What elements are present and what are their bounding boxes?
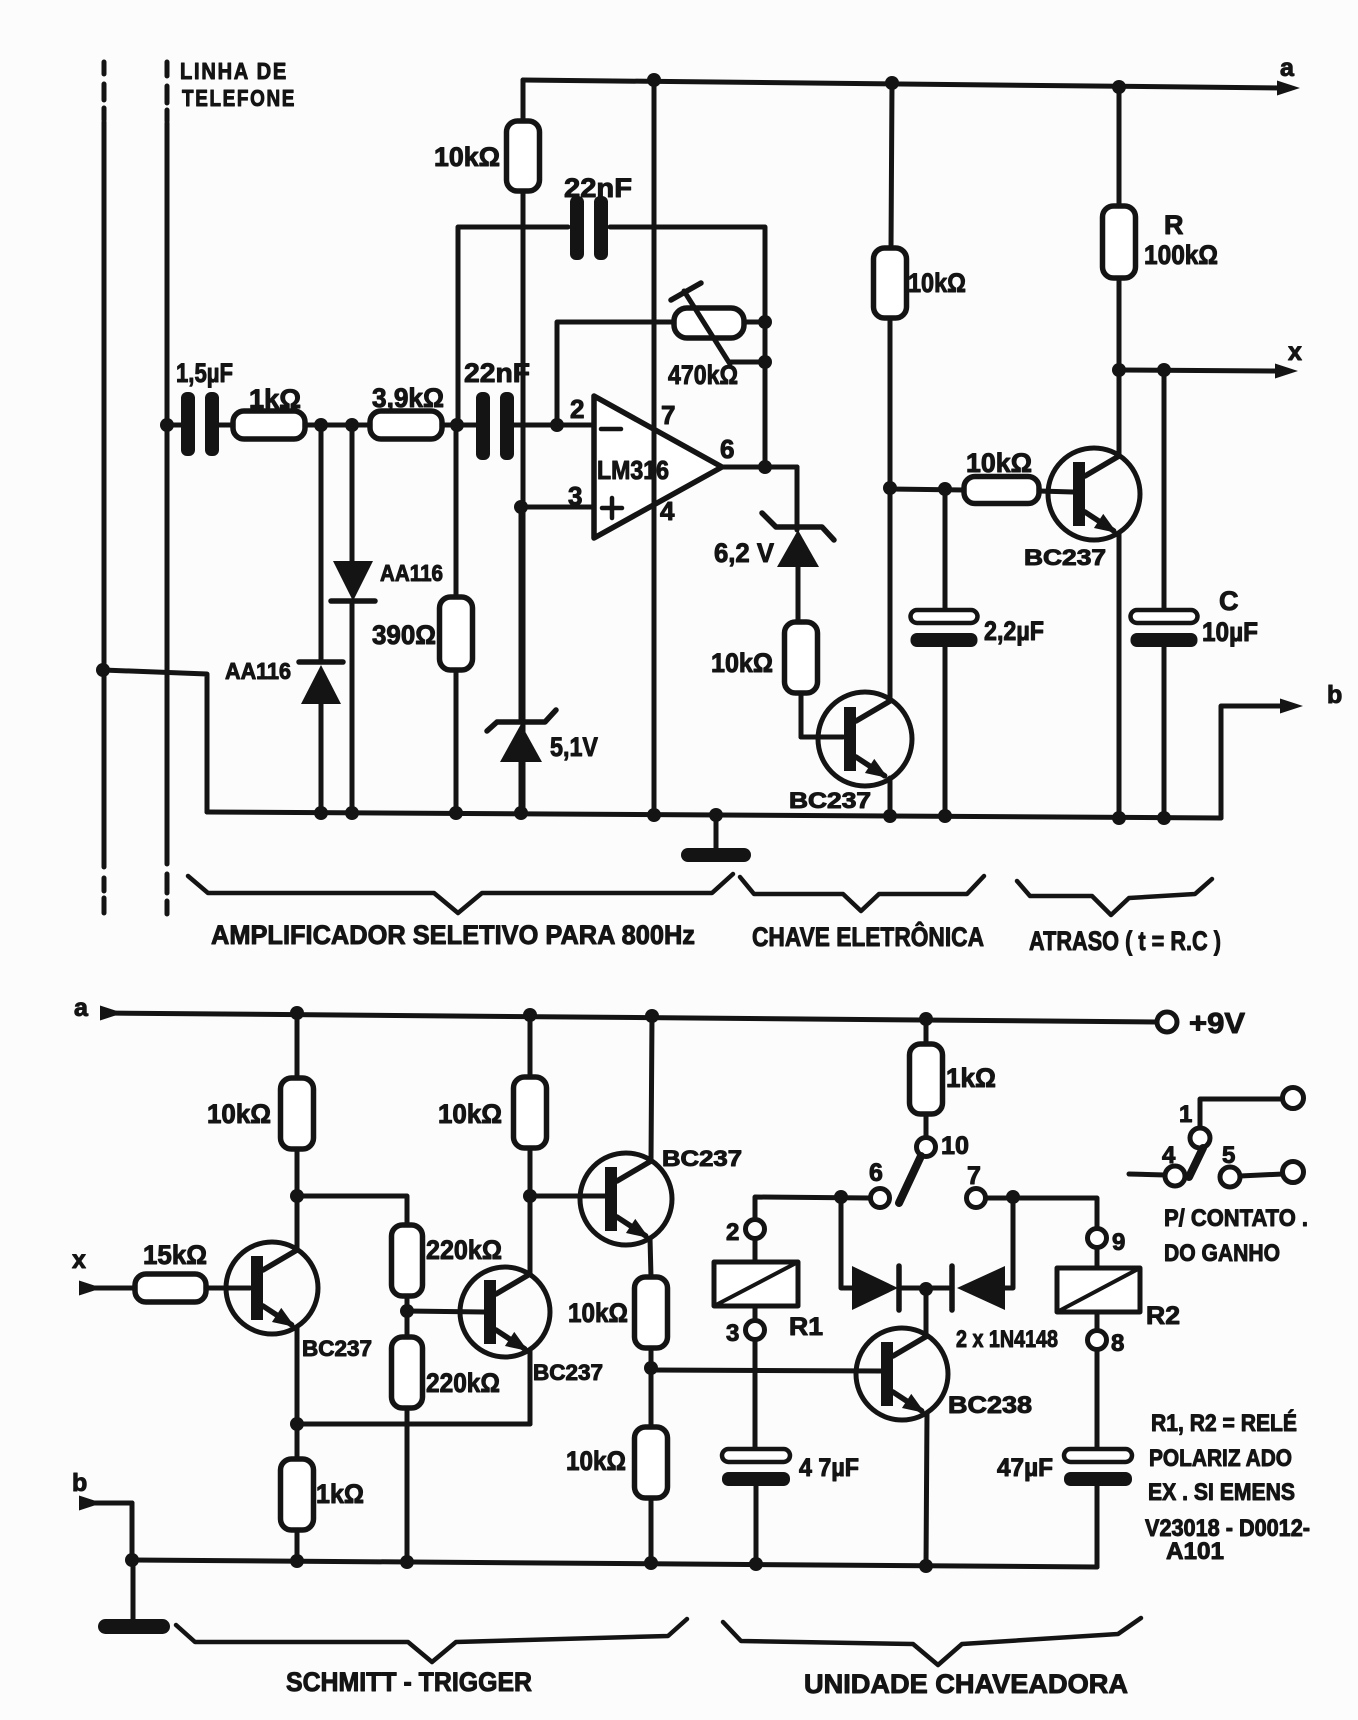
node rail d9 xyxy=(1157,811,1171,825)
relay R1 xyxy=(746,1220,765,1239)
svg-text:C: C xyxy=(1219,586,1239,616)
node b ground xyxy=(125,1553,139,1567)
svg-text:6: 6 xyxy=(869,1159,883,1187)
svg-text:47µF: 47µF xyxy=(997,1454,1053,1482)
svg-text:BC237: BC237 xyxy=(533,1360,603,1385)
switch lever main xyxy=(899,1156,921,1203)
svg-text:3: 3 xyxy=(726,1320,739,1347)
node A (diode tap 1) xyxy=(314,418,328,432)
node top rail 1 xyxy=(647,73,661,87)
wire divider to q4 base xyxy=(407,1311,484,1312)
node rail d4 xyxy=(514,806,528,820)
svg-text:10kΩ: 10kΩ xyxy=(566,1446,626,1476)
svg-text:BC237: BC237 xyxy=(302,1336,372,1361)
wire 3,9k to 22nF xyxy=(442,423,476,428)
node lr2 xyxy=(400,1555,414,1569)
op-amp U1 LM316 xyxy=(594,396,722,538)
capacitor 1,5uF xyxy=(181,392,195,456)
node rail ground xyxy=(709,808,723,822)
node output junction xyxy=(758,460,772,474)
svg-text:8: 8 xyxy=(1111,1330,1124,1357)
svg-text:4: 4 xyxy=(660,496,675,526)
node pin3 junction xyxy=(514,500,528,514)
svg-text:POLARIZ ADO: POLARIZ ADO xyxy=(1149,1445,1292,1472)
svg-text:2: 2 xyxy=(726,1219,739,1246)
zener 6,2V xyxy=(762,513,834,540)
transistor Q5 BC237 driver xyxy=(580,1153,672,1245)
resistor 390R xyxy=(454,425,459,597)
gain switch lever xyxy=(1189,1148,1203,1177)
node top rail 3 xyxy=(1112,80,1126,94)
svg-text:10kΩ: 10kΩ xyxy=(568,1298,628,1328)
svg-text:x: x xyxy=(72,1246,86,1274)
svg-text:6: 6 xyxy=(720,434,734,464)
svg-text:9: 9 xyxy=(1112,1229,1125,1256)
node top rail 2 xyxy=(885,76,899,90)
wire bottom rail upper section xyxy=(103,670,207,812)
resistor 220k upper xyxy=(392,1225,423,1296)
ground upper xyxy=(714,815,719,849)
node pot wiper xyxy=(758,355,772,369)
svg-text:AMPLIFICADOR SELETIVO PARA: AMPLIFICADOR SELETIVO PARA 800Hz xyxy=(211,920,695,950)
resistor 15k xyxy=(135,1274,206,1302)
wire 1k to 3,9k xyxy=(305,423,370,428)
svg-text:BC238: BC238 xyxy=(948,1392,1032,1419)
resistor 3,9k xyxy=(370,411,442,439)
transistor Q3 BC237 schmitt input xyxy=(226,1242,318,1334)
node phone line 2 input junction xyxy=(160,418,174,432)
node a4 xyxy=(919,1012,933,1026)
svg-text:1kΩ: 1kΩ xyxy=(946,1063,996,1093)
svg-text:3,9kΩ: 3,9kΩ xyxy=(372,383,444,413)
svg-text:EX . SI EMENS: EX . SI EMENS xyxy=(1148,1479,1295,1506)
svg-text:2: 2 xyxy=(570,394,584,424)
resistor 10k top-left xyxy=(521,80,526,121)
wire op-amp output xyxy=(722,465,797,470)
capacitor C 10uF xyxy=(1162,370,1167,610)
brace unidade chaveadora xyxy=(723,1618,1141,1665)
svg-text:220kΩ: 220kΩ xyxy=(426,1368,500,1398)
node lr3 xyxy=(644,1556,658,1570)
node q1 collector xyxy=(290,1189,304,1203)
svg-text:AA116: AA116 xyxy=(225,658,291,684)
wire base feed xyxy=(890,489,964,490)
svg-text:BC237: BC237 xyxy=(789,788,871,813)
svg-text:R1, R2 = RELÉ: R1, R2 = RELÉ xyxy=(1151,1409,1297,1437)
node emitters join xyxy=(290,1417,304,1431)
node diode tap right xyxy=(1006,1190,1020,1204)
transistor Q1 BC237 switch-low xyxy=(818,692,912,786)
svg-text:A101: A101 xyxy=(1166,1538,1224,1565)
svg-text:10kΩ: 10kΩ xyxy=(438,1099,502,1129)
brace chave section xyxy=(740,876,984,911)
node driver junction xyxy=(644,1361,658,1375)
wire q4 collector to q5 base xyxy=(530,1194,605,1199)
ground lower xyxy=(131,1560,136,1620)
wire telephone line 1 (dashed/solid) xyxy=(102,62,107,120)
svg-text:7: 7 xyxy=(967,1162,981,1190)
svg-text:10: 10 xyxy=(941,1132,969,1160)
svg-text:R: R xyxy=(1164,210,1184,240)
node pot terminal xyxy=(758,315,772,329)
node pin2 xyxy=(550,418,564,432)
svg-text:P/ CONTATO .: P/ CONTATO . xyxy=(1164,1205,1308,1232)
wire driver to BC238 base xyxy=(651,1370,881,1371)
svg-text:1kΩ: 1kΩ xyxy=(249,384,301,414)
node x line 1 xyxy=(1112,363,1126,377)
node q4 collector xyxy=(523,1189,537,1203)
node rail d1 xyxy=(314,806,328,820)
svg-text:b: b xyxy=(1327,681,1342,709)
node a1 xyxy=(290,1006,304,1020)
svg-text:LM316: LM316 xyxy=(597,455,669,485)
svg-text:DO GANHO: DO GANHO xyxy=(1164,1240,1280,1267)
node divider mid xyxy=(400,1304,414,1318)
svg-text:UNIDADE CHAVEADORA: UNIDADE CHAVEADORA xyxy=(804,1669,1128,1699)
svg-text:2,2µF: 2,2µF xyxy=(984,616,1044,646)
transistor Q6 BC238 xyxy=(856,1328,948,1420)
svg-text:b: b xyxy=(72,1469,87,1497)
node a3 xyxy=(645,1009,659,1023)
contact 7 xyxy=(967,1189,986,1208)
node collector ladder xyxy=(883,481,897,495)
node rail d8 xyxy=(1112,811,1126,825)
wire between diodes xyxy=(899,1286,952,1291)
node a2 xyxy=(523,1008,537,1022)
contact 10 xyxy=(917,1138,936,1157)
svg-text:2 x 1N4148: 2 x 1N4148 xyxy=(956,1326,1058,1353)
svg-text:1: 1 xyxy=(1179,1101,1192,1128)
node cap 2,2uF tap xyxy=(938,482,952,496)
svg-text:22nF: 22nF xyxy=(464,358,530,388)
potentiometer 470k xyxy=(557,322,674,425)
brace amplifier section xyxy=(188,874,733,913)
node lr4 xyxy=(749,1557,763,1571)
svg-text:7: 7 xyxy=(661,400,675,430)
node C (feedback tap) xyxy=(450,418,464,432)
node rail d5 xyxy=(647,808,661,822)
node lr1 xyxy=(290,1554,304,1568)
svg-text:BC237: BC237 xyxy=(662,1146,742,1171)
svg-text:BC237: BC237 xyxy=(1024,545,1106,570)
wire telephone line 2 (dashed/solid) xyxy=(165,62,170,121)
wire x output xyxy=(1119,370,1280,371)
node B (diode tap 2) xyxy=(345,418,359,432)
diode AA116 D1 (points down) xyxy=(350,425,355,561)
node rail d7 xyxy=(938,809,952,823)
node rail d2 xyxy=(345,806,359,820)
svg-text:LINHA DE: LINHA DE xyxy=(180,58,288,84)
svg-text:SCHMITT - TRIGGER: SCHMITT - TRIGGER xyxy=(286,1667,532,1697)
wire contact7 to relay R2 xyxy=(986,1198,1097,1228)
svg-text:100kΩ: 100kΩ xyxy=(1144,240,1218,270)
brace atraso section xyxy=(1017,879,1212,915)
capacitor 47uF right xyxy=(1064,1449,1132,1462)
resistor 10k schmitt left xyxy=(295,1013,300,1078)
svg-text:390Ω: 390Ω xyxy=(372,620,436,650)
svg-text:AA116: AA116 xyxy=(380,560,443,586)
resistor 10k driver upper xyxy=(635,1277,668,1348)
wire diode left leg xyxy=(841,1197,852,1288)
svg-text:TELEFONE: TELEFONE xyxy=(182,85,296,111)
resistor 1k relay feed xyxy=(924,1019,929,1044)
svg-text:10kΩ: 10kΩ xyxy=(434,142,500,172)
wire diode right leg xyxy=(1005,1197,1013,1288)
resistor 10k collector ladder xyxy=(891,83,892,248)
svg-text:1kΩ: 1kΩ xyxy=(316,1479,364,1509)
wire contact6 to relay R1 xyxy=(755,1197,870,1220)
svg-text:+9V: +9V xyxy=(1189,1008,1246,1040)
wire top rail a xyxy=(523,80,1282,88)
svg-text:R2: R2 xyxy=(1146,1302,1180,1330)
wire pin3 xyxy=(521,505,594,510)
svg-text:15kΩ: 15kΩ xyxy=(143,1240,207,1270)
svg-text:5,1V: 5,1V xyxy=(550,732,598,762)
svg-text:10kΩ: 10kΩ xyxy=(966,448,1032,478)
diode D3 1N4148 xyxy=(852,1266,898,1310)
diode D4 1N4148 xyxy=(957,1266,1005,1310)
svg-text:6,2 V: 6,2 V xyxy=(714,538,774,568)
capacitor 22nF feedback xyxy=(570,196,584,260)
resistor 10k base horizontal xyxy=(964,477,1039,504)
capacitor 47uF left xyxy=(722,1449,790,1462)
brace schmitt trigger xyxy=(176,1619,687,1662)
svg-text:CHAVE ELETRÔNICA: CHAVE ELETRÔNICA xyxy=(752,921,984,952)
svg-text:1,5µF: 1,5µF xyxy=(176,358,233,388)
node rail d3 xyxy=(449,806,463,820)
svg-text:470kΩ: 470kΩ xyxy=(668,360,738,390)
wire b output xyxy=(1221,706,1285,818)
resistor R 100k xyxy=(1117,88,1122,206)
node diode tap left xyxy=(834,1190,848,1204)
svg-text:10kΩ: 10kΩ xyxy=(711,648,773,678)
wire pin4/pin7 supply vertical xyxy=(652,80,657,815)
resistor 10k below zener xyxy=(785,622,818,693)
svg-text:10kΩ: 10kΩ xyxy=(207,1099,271,1129)
svg-text:ATRASO ( t = R.C ): ATRASO ( t = R.C ) xyxy=(1029,926,1221,956)
svg-text:10µF: 10µF xyxy=(1202,617,1258,647)
svg-text:a: a xyxy=(1280,54,1295,82)
transistor Q2 BC237 switch-high xyxy=(1048,448,1140,540)
resistor 1k schmitt emitter xyxy=(295,1424,300,1459)
svg-text:R1: R1 xyxy=(789,1313,823,1341)
node x line 2 xyxy=(1157,363,1171,377)
svg-text:4 7µF: 4 7µF xyxy=(799,1454,859,1482)
svg-text:x: x xyxy=(1288,338,1302,366)
svg-text:220kΩ: 220kΩ xyxy=(426,1235,502,1265)
transistor Q4 BC237 schmitt second xyxy=(460,1267,550,1357)
resistor 10k driver lower xyxy=(635,1427,668,1498)
wire collector to divider xyxy=(297,1196,407,1225)
capacitor 22nF input xyxy=(476,392,490,460)
wire bottom rail lower section xyxy=(132,1560,1097,1567)
svg-text:a: a xyxy=(74,994,89,1022)
resistor 1k input xyxy=(233,411,305,439)
contact 6 xyxy=(871,1189,890,1208)
terminal +9V xyxy=(1157,1012,1177,1032)
svg-text:10kΩ: 10kΩ xyxy=(908,268,966,298)
node diodes mid xyxy=(919,1282,933,1296)
zener 5,1V xyxy=(519,507,524,722)
resistor 10k schmitt mid xyxy=(528,1015,533,1077)
node phone tap xyxy=(96,663,110,677)
resistor 220k lower xyxy=(392,1337,423,1408)
capacitor 2,2uF xyxy=(943,489,948,610)
diode AA116 D2 (points up) xyxy=(319,425,324,662)
relay R2 xyxy=(1088,1229,1107,1248)
node rail d6 xyxy=(883,809,897,823)
node lr5 xyxy=(919,1559,933,1573)
svg-text:22nF: 22nF xyxy=(564,173,632,203)
